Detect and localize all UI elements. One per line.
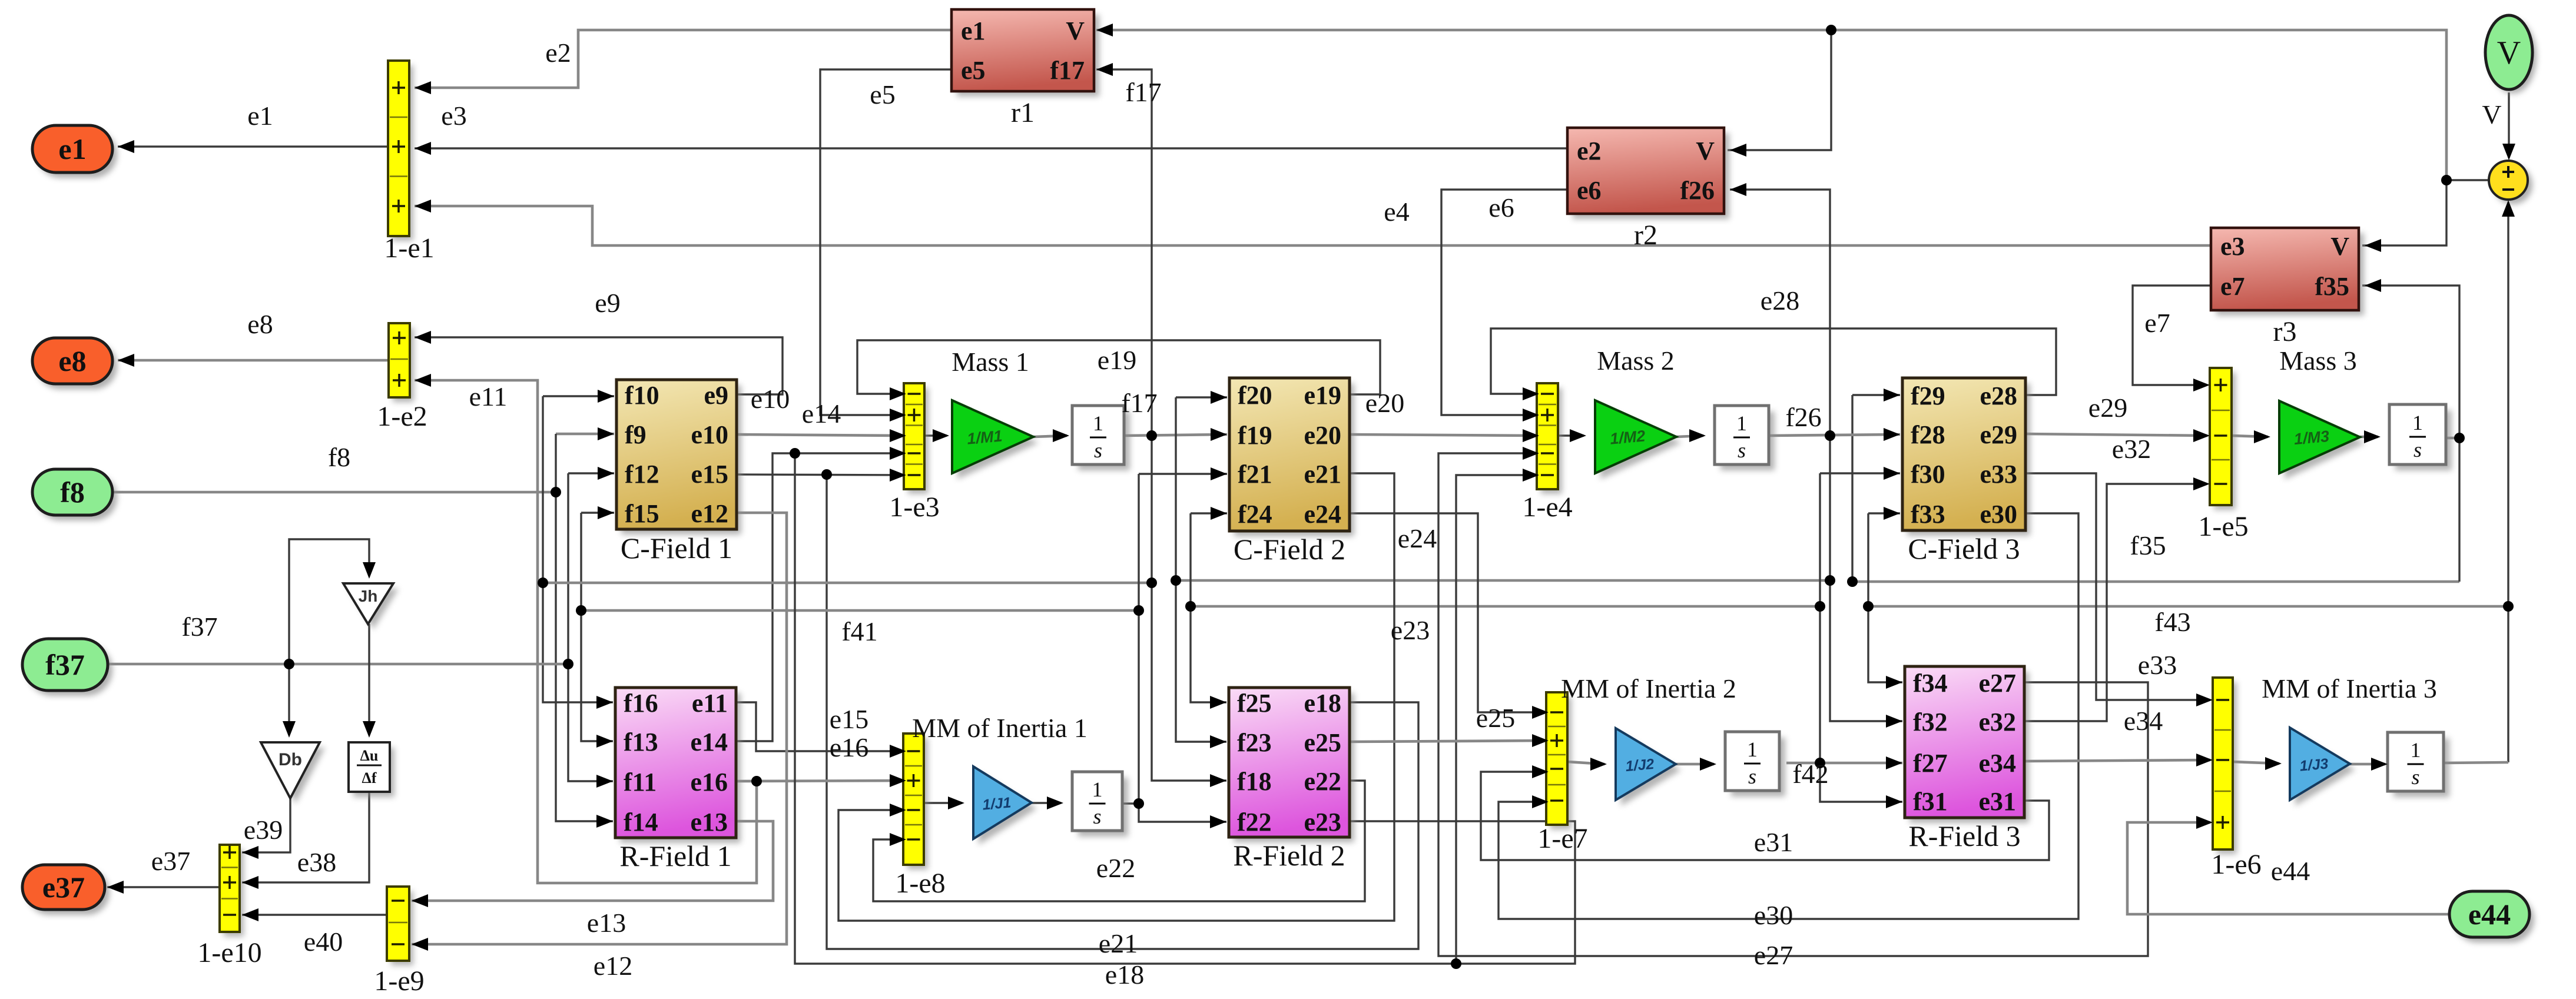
junction dot f33-f34 riser: [1863, 601, 1874, 612]
port oval e37: [22, 865, 110, 915]
svg-text:R-Field 3: R-Field 3: [1908, 819, 2020, 852]
svg-text:f37: f37: [45, 648, 85, 681]
arrowhead into integrator 1: [1053, 429, 1069, 442]
wire into C-Field1 f9: [556, 433, 614, 436]
arrowhead into C-Field3 f30: [1884, 467, 1900, 480]
svg-text:Mass 2: Mass 2: [1597, 346, 1675, 376]
sum block 1-e5: [2198, 368, 2248, 542]
svg-text:e28: e28: [1761, 286, 1799, 316]
arrowhead into R-Field1 f14: [596, 815, 613, 828]
arrowhead into r2 f26 input: [1730, 183, 1746, 196]
arrowhead into 1/J1: [948, 796, 964, 809]
junction dot f42 integrator out: [1815, 758, 1825, 768]
block r3: [2211, 228, 2364, 347]
svg-text:e33: e33: [2138, 650, 2177, 680]
arrowhead into C-Field2 f20: [1211, 391, 1227, 404]
svg-text:C-Field 3: C-Field 3: [1908, 532, 2020, 565]
wire f35 feedback riser to r3: [2362, 286, 2459, 582]
svg-text:f20: f20: [1238, 381, 1272, 410]
wire into C-Field1 f10: [543, 395, 614, 397]
arrowhead into R-Field3 f34: [1886, 676, 1902, 689]
junction dot f41 integrator out: [1133, 798, 1144, 809]
svg-text:1: 1: [1736, 411, 1747, 435]
arrowhead into R-Field2 f25: [1210, 696, 1226, 709]
arrowhead into integrator 3: [2364, 430, 2381, 443]
svg-text:e30: e30: [1754, 900, 1793, 930]
gain Jh: [343, 583, 399, 629]
svg-text:s: s: [1738, 439, 1746, 462]
wire e5 from r1 to 1-e3: [820, 69, 952, 415]
arrowhead into 1-e5 input 1: [2193, 379, 2210, 391]
svg-text:1: 1: [1093, 411, 1103, 435]
junction dot f42 riser: [1815, 601, 1825, 612]
svg-text:f15: f15: [625, 499, 659, 528]
wire e2 from r1 to 1-e1: [415, 30, 952, 88]
svg-text:V: V: [2330, 232, 2349, 261]
arrowhead into 1-e1 input 2: [415, 142, 431, 155]
wire V branch to r3: [2362, 180, 2446, 245]
wire f17 feedback to r1: [1096, 69, 1152, 436]
wire riser f10-f16: [543, 396, 613, 702]
arrowhead into 1-e4 input 2: [1523, 409, 1539, 421]
arrowhead into C-Field1 f9: [598, 427, 614, 440]
arrowhead into 1-e3 input 1: [890, 387, 906, 400]
arrowhead into C-Field2 f21: [1211, 467, 1227, 480]
svg-text:1/J3: 1/J3: [2299, 755, 2329, 774]
junction dot f17 bus end: [538, 578, 548, 588]
arrowhead into R-Field2 f22: [1210, 815, 1226, 828]
svg-text:f8: f8: [328, 442, 350, 472]
svg-text:f26: f26: [1680, 176, 1715, 205]
svg-text:f22: f22: [1237, 808, 1272, 837]
svg-text:1-e6: 1-e6: [2211, 849, 2261, 880]
svg-text:Δu: Δu: [360, 747, 379, 764]
wire f26 feedback to r2: [1730, 190, 1830, 436]
arrowhead into 1-e1 input 1: [415, 81, 431, 94]
arrowhead into 1/J2: [1590, 758, 1607, 771]
arrowhead into Db: [283, 721, 296, 738]
svg-text:s: s: [1748, 765, 1756, 788]
svg-text:e19: e19: [1098, 345, 1136, 375]
svg-text:1-e7: 1-e7: [1537, 823, 1587, 854]
svg-text:f30: f30: [1911, 460, 1945, 489]
block C-Field 1: [616, 380, 741, 565]
svg-text:e20: e20: [1304, 421, 1341, 450]
svg-text:e3: e3: [441, 101, 466, 131]
wire integrator4 out to f41 riser: [1122, 802, 1139, 804]
svg-text:e2: e2: [1577, 137, 1602, 165]
wire f41 distribution bus: [581, 609, 1139, 612]
svg-text:f34: f34: [1913, 669, 1948, 698]
svg-text:f9: f9: [625, 420, 647, 449]
wire f17 riser down to R-Field2 f18: [1152, 436, 1226, 781]
svg-text:1-e3: 1-e3: [889, 492, 939, 523]
svg-text:s: s: [1094, 439, 1102, 462]
sum block 1-e10: [197, 845, 261, 968]
wire f42 integrator5 out to R-Field3 f27: [1786, 762, 1902, 765]
wire e13 from R-Field1 to 1-e9: [412, 821, 773, 901]
wire 1/M2 to integrator 2: [1676, 436, 1703, 437]
wire f26 riser down to R-Field3 f32: [1830, 436, 1902, 721]
svg-text:f18: f18: [1237, 767, 1272, 796]
arrowhead into 1-e8 input 2: [890, 774, 906, 787]
arrowhead into du/df block: [363, 721, 376, 738]
svg-text:MM of Inertia 1: MM of Inertia 1: [912, 713, 1088, 743]
junction dot f41 bus end: [576, 605, 586, 616]
arrowhead into 1-e5 input 2: [2193, 429, 2210, 442]
svg-text:f28: f28: [1911, 420, 1945, 449]
wire f8 riser to R-Field1 f14: [556, 434, 613, 821]
block R-Field 3: [1905, 666, 2029, 852]
arrowhead into 1-e6 input 1: [2196, 693, 2213, 706]
svg-text:Jh: Jh: [359, 587, 378, 605]
svg-text:e40: e40: [304, 927, 343, 957]
svg-text:e5: e5: [870, 79, 895, 109]
svg-text:r2: r2: [1634, 220, 1657, 251]
svg-text:1-e8: 1-e8: [895, 868, 945, 899]
wire f17 distribution bus left: [543, 582, 1152, 585]
arrowhead into C-Field3 f29: [1884, 389, 1900, 401]
arrowhead into r1 f17 input: [1096, 63, 1113, 76]
gain 1/J2: [1616, 728, 1681, 806]
arrowhead into sum circle bottom: [2502, 200, 2515, 217]
arrowhead into C-Field1 f12: [598, 467, 614, 480]
wire e37 output to port oval: [107, 886, 220, 888]
wire f42 distribution bus middle: [1191, 605, 1820, 608]
svg-text:e38: e38: [297, 847, 336, 877]
svg-text:V: V: [2482, 99, 2501, 130]
svg-text:e1: e1: [247, 101, 273, 131]
svg-text:Δf: Δf: [362, 769, 377, 786]
wire 1-e3 output to gain 1/M1: [924, 434, 947, 436]
wire e8 output to port oval: [118, 359, 389, 362]
wire e16 from R-Field1 to 1-e8: [736, 781, 906, 781]
junction dot f41 riser: [1133, 605, 1144, 616]
wire f26 distribution bus middle: [1176, 579, 1830, 582]
wire riser f33-f34: [1868, 513, 1902, 682]
arrowhead into r3 f35 input: [2365, 279, 2381, 292]
svg-text:1/M2: 1/M2: [1609, 427, 1646, 447]
wire into C-Field3 f29: [1852, 394, 1900, 396]
arrowhead into 1-e8 input 3: [890, 804, 906, 817]
arrowhead into 1-e4 input 1: [1523, 387, 1539, 400]
block C-Field 2: [1229, 378, 1354, 566]
arrowhead into 1/M2: [1570, 429, 1586, 442]
wire into C-Field2 f21: [1139, 473, 1227, 474]
gain 1/M2: [1595, 400, 1682, 479]
arrowhead into 1-e4 input 5: [1523, 469, 1539, 482]
svg-text:MM of Inertia 3: MM of Inertia 3: [2262, 673, 2437, 703]
arrowhead into Jh: [363, 562, 376, 579]
wire f37 riser to R-Field1 f11: [568, 473, 613, 781]
arrowhead into C-Field3 f33: [1884, 507, 1900, 520]
arrowhead into C-Field2 f19: [1211, 428, 1227, 441]
block r1: [952, 9, 1099, 128]
junction dot e23 to 1-e4 input 5: [1451, 958, 1461, 969]
arrowhead into 1-e3 input 5: [890, 469, 906, 482]
svg-text:e10: e10: [691, 420, 728, 449]
svg-text:f35: f35: [2315, 272, 2349, 301]
svg-text:Mass 3: Mass 3: [2279, 346, 2357, 376]
svg-text:f21: f21: [1238, 460, 1272, 489]
svg-text:e5: e5: [961, 56, 986, 85]
svg-text:e7: e7: [2220, 272, 2245, 301]
wire sum circle output: [2446, 179, 2489, 181]
svg-text:e11: e11: [469, 381, 508, 411]
wire e30 loop C-Field3.e30 to 1-e7: [1498, 513, 2078, 919]
junction dot f35: [2454, 433, 2465, 443]
svg-text:f24: f24: [1238, 500, 1272, 529]
svg-text:e18: e18: [1105, 960, 1144, 990]
svg-text:e13: e13: [587, 908, 626, 938]
svg-text:MM of Inertia 2: MM of Inertia 2: [1561, 673, 1736, 703]
junction dot f37 end: [563, 659, 573, 669]
svg-text:f26: f26: [1785, 402, 1821, 432]
svg-text:e4: e4: [1384, 197, 1409, 227]
wire 1/J1 to integrator 4: [1032, 802, 1061, 804]
svg-text:e44: e44: [2271, 856, 2310, 886]
arrowhead into e1 oval: [118, 140, 134, 153]
svg-text:1: 1: [2411, 738, 2421, 762]
wire 1/M1 to integrator: [1033, 436, 1067, 437]
svg-text:e14: e14: [690, 728, 728, 756]
wire riser f24-f25: [1191, 513, 1226, 702]
svg-text:e32: e32: [1978, 708, 2016, 736]
integrator 1/s Mass 1: [1072, 406, 1130, 470]
svg-text:f23: f23: [1237, 728, 1272, 757]
arrowhead into 1-e9 input 1: [412, 894, 428, 907]
wire e10 from C-Field1 to 1-e3: [737, 434, 906, 436]
svg-text:1: 1: [1747, 738, 1758, 761]
svg-text:1-e4: 1-e4: [1522, 492, 1572, 523]
svg-text:f42: f42: [1792, 759, 1828, 789]
svg-text:f17: f17: [1125, 77, 1161, 107]
wire V source to sum circle: [2508, 92, 2509, 158]
svg-text:e23: e23: [1391, 615, 1430, 645]
integrator 1/s Inertia 2: [1725, 732, 1785, 796]
arrowhead into R-Field3 f31: [1886, 795, 1902, 808]
arrowhead into integrator 4: [1047, 796, 1063, 809]
svg-text:R-Field 1: R-Field 1: [619, 839, 731, 872]
arrowhead into 1-e5 input 3: [2193, 477, 2210, 490]
svg-text:r3: r3: [2273, 316, 2297, 347]
arrowhead into 1-e6 input 2: [2196, 754, 2213, 766]
arrowhead into R-Field1 f13: [596, 735, 613, 748]
svg-text:1: 1: [1092, 778, 1103, 801]
junction dot V bus r2 branch: [1826, 25, 1836, 35]
arrowhead into C-Field1 f15: [598, 506, 614, 519]
svg-text:f27: f27: [1913, 749, 1948, 778]
svg-text:e21: e21: [1304, 460, 1341, 489]
svg-text:e6: e6: [1488, 193, 1514, 223]
svg-text:e8: e8: [58, 344, 86, 377]
arrowhead into 1-e8 input 1: [890, 745, 906, 758]
wire e21 loop C-Field2.e21 to 1-e8: [838, 473, 1394, 921]
svg-text:1-e9: 1-e9: [374, 965, 424, 997]
arrowhead into C-Field3 f28: [1884, 428, 1900, 441]
svg-text:e9: e9: [595, 288, 620, 318]
svg-text:r1: r1: [1011, 97, 1035, 128]
arrowhead into e37 oval: [107, 881, 124, 894]
block R-Field 2: [1229, 688, 1354, 872]
block R-Field 1: [615, 688, 741, 872]
wire 1/J3 to integrator 6: [2350, 763, 2385, 766]
junction dot f26: [1825, 430, 1835, 441]
svg-text:f35: f35: [2130, 530, 2166, 560]
gain 1/J3: [2290, 728, 2355, 806]
wire e44 from port oval to 1-e6: [2127, 822, 2449, 914]
svg-text:e8: e8: [247, 309, 273, 339]
junction dot f37 to Jh/Db: [284, 659, 294, 669]
arrowhead into R-Field2 f23: [1210, 735, 1226, 748]
junction dot e16 branch: [751, 776, 762, 786]
arrowhead into 1-e4 input 4: [1523, 447, 1539, 460]
junction dot f8: [551, 487, 561, 497]
svg-text:f32: f32: [1913, 708, 1948, 736]
wire 1-e4 output to 1/M2: [1558, 434, 1584, 436]
integrator 1/s Mass 2: [1715, 406, 1775, 470]
gain du/df: [349, 742, 394, 797]
arrowhead into 1-e10 input 1: [242, 846, 258, 859]
wire e7 from r3 to 1-e5: [2133, 286, 2211, 385]
svg-text:C-Field 2: C-Field 2: [1234, 533, 1345, 566]
arrowhead into integrator 6: [2371, 758, 2388, 771]
wire into C-Field1 f12: [568, 472, 614, 474]
arrowhead into 1-e10 input 3: [242, 908, 258, 921]
arrowhead into 1-e4 input 3: [1523, 429, 1539, 442]
svg-text:f17: f17: [1050, 56, 1085, 85]
arrowhead into 1-e3 input 3: [890, 429, 906, 442]
arrowhead into 1-e7 input 2: [1532, 734, 1549, 747]
arrowhead into 1-e1 input 3: [415, 200, 431, 213]
wire f42 jog to R-Field3 f31: [1820, 763, 1902, 802]
svg-text:s: s: [2413, 438, 2422, 462]
svg-text:e6: e6: [1577, 176, 1602, 205]
wire e6 from r2 to 1-e4: [1441, 190, 1566, 415]
wire riser f21-f41: [1138, 474, 1139, 804]
wire f43 distribution bus right: [1868, 605, 2508, 608]
svg-text:e24: e24: [1398, 523, 1437, 553]
sum block 1-e2: [377, 323, 427, 432]
svg-text:e19: e19: [1304, 381, 1341, 410]
wire 1-e7 output to 1/J2: [1567, 762, 1604, 764]
integrator 1/s Inertia 1: [1072, 772, 1128, 837]
integrator 1/s Mass 3: [2389, 404, 2452, 470]
wire e14 from R-Field1 to 1-e3: [736, 453, 906, 741]
svg-text:R-Field 2: R-Field 2: [1233, 839, 1345, 872]
wire 1/M3 to integrator 3: [2360, 436, 2378, 439]
svg-text:e39: e39: [244, 815, 283, 845]
wire e15 from C-Field1 to 1-e3 input 5: [737, 474, 906, 475]
block r2: [1567, 128, 1729, 251]
sum block 1-e8: [895, 734, 945, 899]
wire into C-Field2 f20: [1176, 396, 1227, 398]
wire e38 du/df output to 1-e10: [242, 792, 369, 882]
svg-text:e24: e24: [1304, 500, 1341, 529]
wire e34 from R-Field3 to 1-e6: [2024, 760, 2210, 761]
svg-text:e1: e1: [58, 132, 86, 165]
svg-text:e10: e10: [751, 384, 790, 414]
svg-text:e23: e23: [1304, 808, 1341, 837]
junction dot f17 riser: [1146, 578, 1157, 588]
wire e40 from 1-e9 to 1-e10: [242, 914, 387, 915]
svg-text:f19: f19: [1238, 421, 1272, 450]
gain 1/M1: [952, 400, 1039, 479]
wire riser f29: [1851, 395, 1853, 582]
svg-text:e25: e25: [1304, 728, 1341, 757]
arrowhead into r2 V input: [1730, 144, 1746, 157]
svg-text:e7: e7: [2144, 308, 2170, 338]
svg-text:e21: e21: [1099, 928, 1138, 958]
arrowhead into 1-e8 input 4: [890, 833, 906, 846]
integrator 1/s Inertia 3: [2388, 732, 2449, 797]
wire e4 bus from r3.e3 to 1-e1: [415, 206, 2211, 245]
junction dot e15-e18: [821, 469, 832, 480]
svg-text:f12: f12: [625, 460, 659, 489]
arrowhead into integrator 5: [1700, 758, 1716, 771]
wire e25 from R-Field2 to 1-e7: [1350, 741, 1549, 742]
arrowhead into 1/M3: [2254, 430, 2270, 443]
arrowhead into 1-e9 input 2: [412, 938, 428, 951]
arrowhead into 1-e3 input 4: [890, 447, 906, 460]
wire e18 loop R-Field2.e18 joining e15: [827, 474, 1418, 949]
arrowhead into r1 V input: [1096, 24, 1113, 36]
svg-text:f37: f37: [181, 612, 217, 642]
svg-text:f11: f11: [624, 768, 657, 796]
svg-text:V: V: [2497, 35, 2521, 71]
arrowhead into R-Field3 f32: [1886, 715, 1902, 728]
svg-text:f43: f43: [2154, 607, 2190, 637]
arrowhead into C-Field1 f10: [598, 390, 614, 403]
junction dot V bus r3 branch: [2441, 175, 2452, 185]
arrowhead into 1-e7 input 4: [1532, 795, 1549, 808]
svg-text:e22: e22: [1304, 767, 1341, 796]
wire integrator6 out to feedback riser: [2444, 762, 2508, 763]
svg-text:e31: e31: [1978, 787, 2016, 816]
wire e11 from R-Field1 to 1-e8 input 1: [736, 702, 904, 751]
wire e27 loop R-Field3.e27 to 1-e4 input 4: [1438, 453, 2148, 956]
svg-text:f8: f8: [60, 476, 85, 509]
port oval V source: [2485, 15, 2537, 94]
svg-text:e31: e31: [1754, 827, 1793, 857]
svg-text:C-Field 1: C-Field 1: [621, 532, 732, 565]
arrowhead into R-Field1 f16: [596, 696, 613, 709]
wire f8 from port oval: [112, 491, 556, 494]
wire e9 loop to 1-e2: [415, 337, 783, 394]
arrowhead into R-Field1 f11: [596, 775, 613, 788]
arrowhead into C-Field2 f24: [1211, 507, 1227, 520]
junction dot f29 riser: [1847, 576, 1858, 587]
arrowhead into R-Field2 f18: [1210, 774, 1226, 787]
svg-text:e34: e34: [1978, 749, 2016, 778]
wire e33 from C-Field3 to 1-e6: [2025, 473, 2210, 700]
arrowhead into 1-e10 input 2: [242, 876, 258, 889]
wire e31 loop R-Field3.e31 to 1-e7: [1481, 772, 2049, 860]
wire velocity feedback to sum circle minus: [2507, 203, 2509, 762]
wire e28 loop C-Field3.e28 to 1-e4: [1491, 328, 2056, 395]
svg-text:1-e10: 1-e10: [197, 937, 261, 968]
svg-text:e16: e16: [830, 732, 868, 762]
port oval e8: [32, 338, 117, 389]
wire e32 from R-Field3 to 1-e5: [2024, 484, 2207, 721]
svg-text:V: V: [1696, 137, 1715, 165]
wire e24 from C-Field2 to 1-e7 input 1: [1350, 513, 1549, 712]
sum block 1-e3: [889, 383, 939, 523]
wire V branch to r2: [1728, 30, 1831, 150]
svg-text:1: 1: [2412, 411, 2423, 434]
svg-text:Mass 1: Mass 1: [952, 347, 1029, 377]
wire into C-Field2 f24: [1191, 512, 1227, 514]
